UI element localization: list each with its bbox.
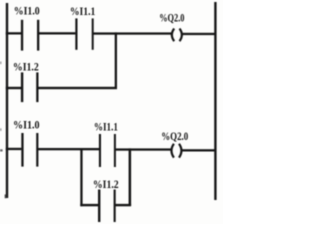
svg-text:%Q2.0: %Q2.0 [159,13,184,25]
svg-text:%I1.1: %I1.1 [70,6,96,18]
svg-text:%I1.2: %I1.2 [93,179,119,191]
svg-text:%I1.2: %I1.2 [13,61,39,73]
svg-text:%I1.0: %I1.0 [14,6,40,18]
svg-text:%I1.1: %I1.1 [94,122,118,134]
svg-text:%Q2.0: %Q2.0 [161,131,188,143]
svg-text:%I1.0: %I1.0 [13,120,40,132]
